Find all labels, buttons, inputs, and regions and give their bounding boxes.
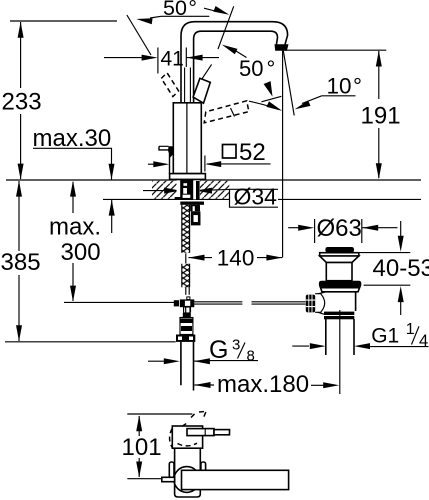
wire: drain centerline extension for max.180 <box>339 310 341 394</box>
bottom view: side tabs <box>169 462 205 478</box>
svg-text:4: 4 <box>419 332 428 350</box>
horizontal pop-up rod (right segments) <box>194 302 305 304</box>
svg-text:50°: 50° <box>239 56 275 81</box>
handle lever (dashed up-left position) <box>161 73 178 97</box>
label Ø34 with box <box>143 184 278 210</box>
dimension 191 <box>285 50 401 179</box>
dimension max.180 <box>195 371 340 398</box>
check valve fitting (right hose) <box>190 205 200 225</box>
svg-text:52: 52 <box>239 139 266 166</box>
hose end tube <box>186 287 189 294</box>
svg-text:10°: 10° <box>327 74 363 99</box>
dimension 233 <box>2 22 42 180</box>
dimension 41 <box>104 48 219 74</box>
drain: flange cone <box>320 256 359 263</box>
svg-text:40-53: 40-53 <box>373 255 429 282</box>
wire: water stream vertical line <box>282 51 284 258</box>
under-counter clamp plate <box>180 202 204 205</box>
bottom view: handle pin <box>187 429 230 436</box>
bottom view: dashed swivel arc inside block <box>170 429 173 448</box>
G3/8 connection fitting <box>176 307 195 342</box>
dimension 385 <box>1 181 41 342</box>
flexible hose lower braided section <box>182 264 190 288</box>
wire: swivel extension line right (two segments) <box>202 6 234 79</box>
bottom view: body column <box>175 448 201 497</box>
flexible hose upper braided section <box>182 205 190 253</box>
svg-text:8: 8 <box>247 347 255 364</box>
vertical rod below junction <box>186 307 191 313</box>
svg-text:191: 191 <box>361 103 401 130</box>
wire: swivel extension line left <box>127 15 151 55</box>
svg-text:140: 140 <box>217 245 255 270</box>
label 10 deg <box>293 74 362 113</box>
faucet spout (inner wall) <box>194 31 278 103</box>
bottom view: spout bar <box>182 470 289 489</box>
label square-52 <box>148 139 271 172</box>
faucet spout inner pipe lines <box>185 68 191 103</box>
drain: flange top plate <box>320 253 359 256</box>
faucet spout (outer wall) <box>181 22 288 103</box>
svg-text:max.: max. <box>49 214 101 241</box>
handle lever hook (side profile, off position) <box>159 146 174 174</box>
drain: lift knob cap <box>325 247 354 253</box>
svg-text:Ø63: Ø63 <box>317 215 362 242</box>
dimension 40-53 <box>357 221 429 315</box>
dimension Ø63 <box>288 215 397 243</box>
svg-text:G: G <box>209 336 228 364</box>
mounting shank in counter hole <box>177 179 200 199</box>
svg-text:50°: 50° <box>163 0 197 20</box>
wire: top reference extension line for 233 <box>10 20 117 22</box>
bottom view: dashed phantom marks above <box>182 411 207 426</box>
label G1 1/4 <box>292 321 428 350</box>
svg-text:385: 385 <box>1 249 41 276</box>
faucet base flange <box>170 174 206 180</box>
horizontal pop-up rod (left ref segment) <box>64 301 178 303</box>
svg-text:Ø34: Ø34 <box>234 184 278 210</box>
label 50 deg (second, handle swing) <box>220 42 283 114</box>
drain: knurled adjuster knob <box>306 295 315 313</box>
label 50 deg (top, spout swivel) <box>136 0 231 24</box>
svg-text:G1: G1 <box>371 324 399 347</box>
hose break tick <box>185 253 187 263</box>
bottom view: handle pin pointing left <box>162 477 175 481</box>
drain: ball housing <box>315 292 325 314</box>
svg-text:1: 1 <box>406 321 415 338</box>
dimension 140 <box>189 245 283 270</box>
svg-text:3: 3 <box>232 337 240 354</box>
svg-text:max.180: max.180 <box>217 371 309 398</box>
dimension 101 (bottom view) <box>122 414 193 479</box>
drain: tailpipe <box>326 319 354 355</box>
drain: under flange <box>321 288 360 292</box>
handle lever (dashed right position) <box>204 101 249 123</box>
handle lever (solid position) <box>193 78 210 103</box>
svg-text:300: 300 <box>61 239 101 266</box>
bottom view: body upper block <box>172 426 202 448</box>
dimension max.30 <box>33 125 115 233</box>
faucet body <box>173 103 201 179</box>
drain: seal ring <box>319 281 361 288</box>
spout outlet (mousseur) <box>275 44 289 51</box>
svg-text:101: 101 <box>122 434 162 461</box>
countertop top line <box>6 179 421 181</box>
svg-text:233: 233 <box>2 89 42 116</box>
pop-up rod junction block <box>174 297 195 307</box>
label G 3/8 <box>148 336 258 364</box>
drain: bottom joint bands <box>324 312 354 320</box>
wire: bottom reference line for 385 (supply end) <box>5 341 176 343</box>
countertop bottom line <box>103 198 421 200</box>
drain: body <box>325 292 356 311</box>
drain: neck <box>326 263 352 281</box>
bottom view: pivot circle <box>174 467 200 493</box>
countertop hatching <box>152 181 229 199</box>
dimension max.300 <box>49 181 101 302</box>
supply pipe tails <box>181 342 194 391</box>
bottom view: dashed line in block <box>178 443 198 446</box>
wire: water stream 10deg slanted line <box>283 51 294 116</box>
